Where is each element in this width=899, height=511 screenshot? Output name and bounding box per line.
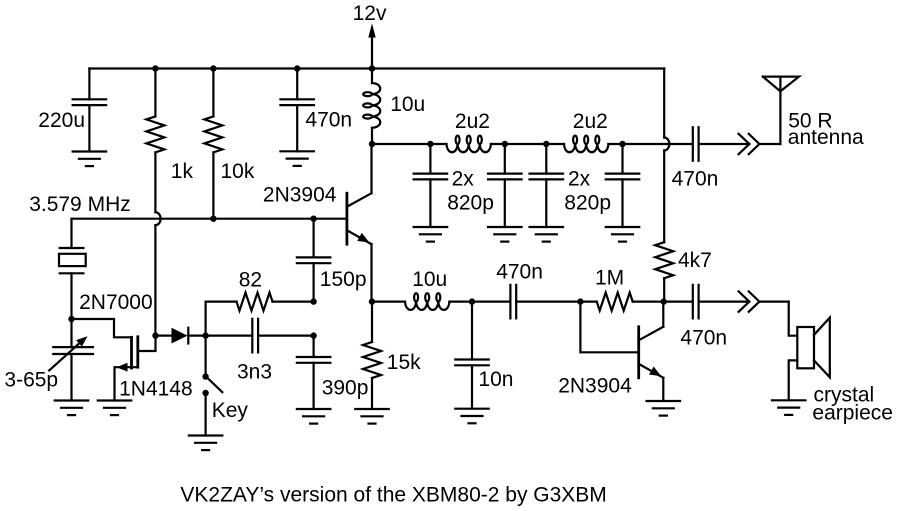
label caption bbox=[180, 483, 606, 506]
svg-text:2x: 2x bbox=[568, 168, 591, 191]
ground Q2 emitter bbox=[647, 401, 681, 416]
inductor 2u2 second bbox=[564, 136, 608, 153]
node 150p-emitter-line junction bbox=[310, 298, 316, 304]
label Key bbox=[212, 399, 249, 422]
transistor 2N7000 body bbox=[115, 336, 156, 401]
ground 2N7000 source bbox=[98, 401, 132, 416]
ground 10n bbox=[455, 409, 489, 424]
wire emitter to 10u bbox=[372, 301, 405, 303]
label 2x first bbox=[452, 168, 475, 191]
label crystal bbox=[814, 384, 875, 407]
wire key node to 82 bbox=[206, 302, 237, 336]
wire connector to antenna bbox=[759, 143, 780, 145]
node drain-diode junction bbox=[152, 332, 158, 338]
resistor 4k7 bbox=[655, 151, 673, 302]
ground 820p d bbox=[606, 227, 640, 242]
svg-text:470n: 470n bbox=[305, 109, 352, 132]
wire 82 to emitter node bbox=[273, 301, 314, 303]
svg-text:3.579 MHz: 3.579 MHz bbox=[29, 193, 131, 216]
label 3-65p bbox=[4, 368, 58, 391]
node 820p a junction bbox=[427, 141, 433, 147]
ground 820p b bbox=[488, 227, 522, 242]
wire 4k7 hop over rf line bbox=[664, 138, 669, 151]
wire Q1 collector bbox=[370, 144, 372, 193]
svg-text:1M: 1M bbox=[595, 267, 624, 290]
label 4k7 bbox=[678, 249, 712, 272]
label 10u audio bbox=[412, 268, 447, 291]
ground 220u bbox=[73, 152, 107, 167]
svg-text:4k7: 4k7 bbox=[678, 249, 712, 272]
ground 15k bbox=[355, 409, 389, 424]
capacitor 3n3 bbox=[206, 319, 314, 353]
resistor 15k bbox=[363, 302, 381, 409]
svg-text:earpiece: earpiece bbox=[812, 401, 893, 424]
resistor 1M bbox=[580, 293, 663, 311]
wire rf line 2 bbox=[491, 143, 564, 145]
svg-text:470n: 470n bbox=[672, 167, 719, 190]
ground 390p bbox=[297, 409, 331, 424]
svg-text:2N3904: 2N3904 bbox=[558, 374, 632, 397]
capacitor 390p bbox=[297, 336, 331, 409]
svg-text:2N7000: 2N7000 bbox=[79, 291, 153, 314]
wire key riser bbox=[205, 336, 207, 377]
capacitor 220u bbox=[73, 69, 107, 152]
ground 3-65p bbox=[55, 401, 89, 416]
svg-text:VK2ZAY’s version of the XBM80-: VK2ZAY’s version of the XBM80-2 by G3XBM bbox=[180, 483, 606, 506]
label 470n audio bbox=[496, 261, 543, 284]
capacitor 3-65p variable bbox=[49, 319, 93, 401]
label 10n bbox=[478, 368, 513, 391]
label Q1 2N3904 bbox=[263, 184, 337, 207]
svg-text:220u: 220u bbox=[38, 109, 85, 132]
svg-text:820p: 820p bbox=[564, 192, 611, 215]
label 390p bbox=[322, 376, 369, 399]
ground 820p c bbox=[530, 227, 564, 242]
svg-text:150p: 150p bbox=[320, 268, 367, 291]
svg-text:10n: 10n bbox=[478, 368, 513, 391]
node 820p d junction bbox=[619, 141, 625, 147]
inductor 2u2 first bbox=[447, 136, 491, 153]
node 3n3-390p junction bbox=[310, 332, 316, 338]
label 15k bbox=[387, 351, 421, 374]
node rail-10k junction bbox=[210, 65, 216, 71]
node 10n junction bbox=[469, 298, 475, 304]
capacitor 820p d bbox=[606, 144, 640, 227]
svg-text:10u: 10u bbox=[412, 268, 447, 291]
label 50 R bbox=[788, 110, 832, 133]
wire rf line 3 bbox=[608, 143, 692, 145]
label 2x second bbox=[568, 168, 591, 191]
wire 12v rail bbox=[89, 67, 664, 69]
label 10k bbox=[221, 160, 255, 183]
speaker crystal earpiece bbox=[789, 302, 830, 401]
label antenna bbox=[788, 126, 864, 149]
wire Q2 collector bbox=[662, 302, 664, 327]
svg-text:15k: 15k bbox=[387, 351, 421, 374]
node Q2 collector junction bbox=[661, 298, 667, 304]
svg-text:2N3904: 2N3904 bbox=[263, 184, 337, 207]
capacitor 10n bbox=[455, 302, 489, 409]
transistor Q2 2N3904 bbox=[639, 327, 664, 378]
resistor 10k bbox=[204, 69, 222, 219]
node rail-choke junction bbox=[369, 65, 375, 71]
ground Key bbox=[189, 436, 223, 451]
label 470n antenna bbox=[672, 167, 719, 190]
svg-text:2u2: 2u2 bbox=[573, 110, 608, 133]
svg-text:3-65p: 3-65p bbox=[4, 368, 58, 391]
label 820p first bbox=[447, 192, 494, 215]
switch Key bbox=[202, 373, 222, 435]
label earpiece bbox=[812, 401, 893, 424]
label 1N4148 bbox=[119, 378, 193, 401]
label 10u choke bbox=[390, 93, 425, 116]
label 220u bbox=[38, 109, 85, 132]
capacitor 470n antenna bbox=[693, 127, 750, 161]
svg-text:82: 82 bbox=[239, 268, 262, 291]
svg-text:1k: 1k bbox=[171, 160, 194, 183]
svg-text:Key: Key bbox=[212, 399, 249, 422]
connector antenna bbox=[739, 134, 760, 154]
svg-text:3n3: 3n3 bbox=[237, 361, 272, 384]
antenna 50R bbox=[763, 77, 799, 144]
wire rail right drop bbox=[663, 69, 665, 138]
crystal 3.579 MHz bbox=[59, 219, 86, 319]
capacitor 470n output bbox=[664, 285, 750, 319]
svg-text:10u: 10u bbox=[390, 93, 425, 116]
svg-text:1N4148: 1N4148 bbox=[119, 378, 193, 401]
node emitter junction bbox=[369, 298, 375, 304]
label 470n bypass bbox=[305, 109, 352, 132]
svg-text:470n: 470n bbox=[496, 261, 543, 284]
wire Q1 emitter bbox=[370, 244, 372, 301]
svg-text:2u2: 2u2 bbox=[455, 110, 490, 133]
node rail-470n junction bbox=[294, 65, 300, 71]
svg-text:10k: 10k bbox=[221, 160, 255, 183]
label 1M bbox=[595, 267, 624, 290]
connector earpiece bbox=[739, 291, 760, 311]
svg-text:2x: 2x bbox=[452, 168, 475, 191]
label 1k bbox=[171, 160, 194, 183]
label 2u2 second bbox=[573, 110, 608, 133]
wire osc base line bbox=[72, 218, 346, 220]
label 12v bbox=[353, 2, 387, 25]
label 150p bbox=[320, 268, 367, 291]
wire rf line 1 bbox=[372, 143, 447, 145]
diode 1N4148 bbox=[156, 328, 206, 344]
ground 820p a bbox=[414, 227, 448, 242]
label Q2 2N3904 bbox=[558, 374, 632, 397]
node base-150p junction bbox=[310, 216, 316, 222]
label 470n output bbox=[680, 327, 727, 350]
wire 10u to 10n node bbox=[449, 301, 472, 303]
transistor Q1 2N3904 bbox=[347, 193, 372, 244]
capacitor 820p b bbox=[488, 144, 522, 227]
ground earpiece bbox=[772, 400, 806, 415]
ground 470n bypass bbox=[280, 151, 314, 166]
node 820p b junction bbox=[502, 141, 508, 147]
node crystal-gate junction bbox=[68, 316, 74, 322]
capacitor 470n audio bbox=[472, 285, 580, 319]
capacitor 150p bbox=[297, 219, 331, 302]
capacitor 820p c bbox=[530, 144, 564, 227]
node diode-key junction bbox=[202, 332, 208, 338]
svg-text:820p: 820p bbox=[447, 192, 494, 215]
label 820p second bbox=[564, 192, 611, 215]
label 3.579 MHz bbox=[29, 193, 131, 216]
svg-text:390p: 390p bbox=[322, 376, 369, 399]
transistor 2N7000 gate lead bbox=[72, 319, 131, 337]
node 10k-osc junction bbox=[210, 216, 216, 222]
label 82 bbox=[239, 268, 262, 291]
node 820p c junction bbox=[543, 141, 549, 147]
resistor 1k bbox=[146, 69, 164, 213]
wire 1k hop over osc line bbox=[155, 212, 160, 225]
inductor 10u choke bbox=[363, 69, 380, 145]
capacitor 470n bypass bbox=[280, 69, 314, 152]
label 2u2 first bbox=[455, 110, 490, 133]
svg-text:12v: 12v bbox=[353, 2, 387, 25]
node choke-collector junction bbox=[369, 141, 375, 147]
inductor 10u audio bbox=[405, 293, 449, 310]
svg-text:470n: 470n bbox=[680, 327, 727, 350]
wire Q2 emitter bbox=[662, 378, 664, 401]
node Q2 base junction bbox=[577, 298, 583, 304]
svg-text:antenna: antenna bbox=[788, 126, 864, 149]
capacitor 820p a bbox=[414, 144, 448, 227]
label 3n3 bbox=[237, 361, 272, 384]
wire Q2 base lead bbox=[580, 302, 638, 353]
wire 1k to drain node bbox=[154, 225, 156, 335]
resistor 82 bbox=[237, 293, 273, 311]
label 2N7000 bbox=[79, 291, 153, 314]
node 12V supply arrow bbox=[368, 23, 375, 71]
wire connector to earpiece bbox=[759, 301, 788, 303]
node rail-1k junction bbox=[152, 65, 158, 71]
